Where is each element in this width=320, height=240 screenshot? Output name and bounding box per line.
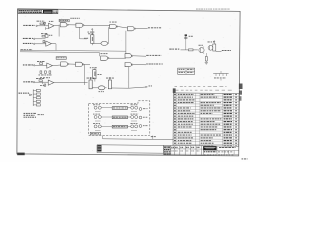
transistor Q9 (139, 108, 147, 128)
voltage table TB (178, 68, 195, 74)
relay K1 driver (84, 29, 94, 46)
relay K4 driver (106, 77, 129, 88)
relay coil L2 (112, 116, 127, 119)
resistor R1 (37, 21, 46, 26)
nand gate U2b (110, 22, 118, 29)
relay K2 driver (90, 67, 102, 81)
wire (95, 129, 137, 131)
IC U1 part-of box (59, 18, 80, 22)
wire (95, 120, 137, 122)
wire (69, 63, 76, 65)
wire (80, 25, 110, 39)
net OUT4 label (216, 50, 231, 51)
scan edge artifact (right margin) (239, 84, 243, 101)
transistor Q3 pair (93, 104, 112, 109)
net OUT1 label (148, 27, 161, 28)
approval signature strip (97, 145, 164, 153)
transistor Q10 buffer (45, 33, 52, 37)
nand gate U1b (76, 23, 84, 27)
title block (164, 145, 239, 155)
net OUT3 label (133, 64, 163, 65)
op-amp A1 (46, 21, 55, 30)
wire (54, 25, 60, 37)
scan speckle (21, 11, 235, 153)
connector J3 pins (213, 71, 228, 81)
wire (118, 27, 128, 29)
nand gate U1a (60, 23, 68, 27)
transistor Q5 pair (93, 123, 112, 128)
capacitor C1 (184, 34, 193, 40)
net OUT2 label (133, 55, 161, 56)
relay coil L3 (112, 125, 127, 128)
wire to arrow (129, 67, 152, 89)
wire bus lower (20, 52, 100, 56)
connector J2 (19, 89, 41, 106)
sheet revision marks (top margin) (196, 8, 230, 11)
wire to output (126, 29, 148, 54)
IC U3 part-of box (56, 57, 66, 60)
op-amp A3 (47, 63, 53, 68)
node J1-1 input label (23, 25, 37, 27)
nand gate U3b (76, 62, 84, 66)
corner mark (bottom-left) (17, 153, 25, 156)
relay K3 driver (87, 77, 95, 88)
nand gate U2c (128, 27, 136, 31)
transistor Q1 (186, 40, 204, 54)
net IN label (169, 49, 188, 50)
transistor Q7 (128, 114, 138, 119)
transistor Q8 (128, 123, 138, 128)
wire bus upper (20, 49, 126, 51)
relay coil L1 (112, 107, 127, 110)
resistor R12 (90, 132, 100, 135)
transistor Q4 pair (93, 114, 112, 119)
resistor R3 (37, 61, 45, 64)
transistor Q6 (128, 104, 138, 109)
op-amp A2 (46, 41, 56, 50)
node J1-2 input label (23, 38, 42, 40)
resistor R2 (41, 33, 48, 43)
wire (84, 64, 91, 85)
nor gate U2a (94, 27, 109, 45)
parts list entries (174, 94, 237, 147)
wire (95, 111, 137, 113)
node J1-4 input label (23, 64, 47, 66)
parts list table (173, 86, 239, 147)
notes spare gates (24, 113, 45, 118)
resistor R10 (188, 49, 197, 51)
resistor R11 (205, 53, 208, 64)
resistor network R4 (39, 71, 52, 78)
notes text block (18, 9, 58, 13)
nand gate U5b (125, 63, 133, 67)
wire (37, 25, 48, 27)
drawing number (bottom-right margin) (242, 158, 248, 159)
node J1-3 input label (23, 43, 46, 45)
nand gate U5a (125, 54, 133, 58)
module A5 dashed outline (89, 101, 150, 136)
wire shield (103, 136, 174, 140)
transistor Q2 (208, 41, 216, 51)
node J1-5 input label (23, 81, 48, 83)
resistor R5 (36, 78, 46, 86)
nand gate U3a (52, 62, 69, 66)
op-amp A4 (48, 80, 87, 85)
nand gate U4a (101, 53, 126, 60)
wire (68, 24, 76, 26)
nor gate U4b (92, 86, 106, 92)
